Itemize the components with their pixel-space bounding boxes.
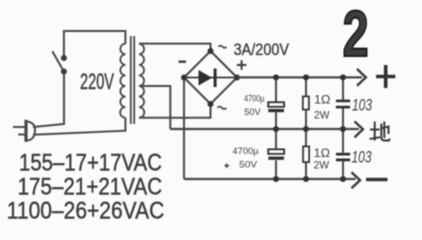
svg-text:3A/200V: 3A/200V — [234, 40, 290, 59]
svg-text:155–17+17VAC: 155–17+17VAC — [19, 149, 162, 176]
svg-text:2W: 2W — [314, 159, 330, 171]
svg-text:1Ω: 1Ω — [314, 95, 331, 107]
svg-text:50V: 50V — [244, 107, 261, 118]
svg-text:2: 2 — [343, 0, 369, 70]
svg-text:103: 103 — [352, 148, 373, 166]
svg-text:2W: 2W — [314, 110, 330, 122]
svg-text:220V: 220V — [80, 69, 114, 94]
svg-text:175–21+21VAC: 175–21+21VAC — [18, 174, 163, 201]
svg-text:1100–26+26VAC: 1100–26+26VAC — [7, 198, 165, 225]
svg-text:50V: 50V — [239, 159, 258, 170]
svg-text:4700µ: 4700µ — [244, 93, 265, 104]
svg-text:4700µ: 4700µ — [233, 146, 260, 157]
svg-text:103: 103 — [352, 97, 373, 115]
svg-text:1Ω: 1Ω — [314, 148, 331, 160]
